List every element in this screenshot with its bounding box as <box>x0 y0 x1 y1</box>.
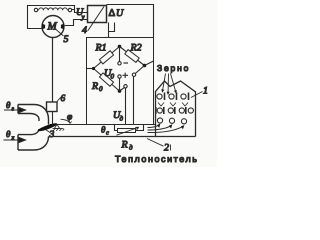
label U0 <box>104 68 115 81</box>
grain inflow arrows <box>161 74 177 96</box>
leader and label 3 <box>46 130 55 141</box>
wire left vertex to box edge <box>87 68 94 70</box>
wire sensor lead right <box>133 76 135 124</box>
valve flap 3 <box>37 122 58 133</box>
pivot symbol <box>53 124 65 130</box>
gearbox 6 <box>47 102 58 112</box>
svg-text:R: R <box>91 81 98 92</box>
amplifier box 4 <box>88 6 107 31</box>
leader and label 2 <box>147 139 171 154</box>
label Ud <box>113 110 124 123</box>
flow chevrons <box>158 103 188 107</box>
angle arc phi <box>61 119 72 123</box>
label R0 <box>91 81 103 93</box>
duct top wall <box>50 124 156 126</box>
svg-text:д: д <box>129 144 133 152</box>
grain hopper outline <box>156 81 196 137</box>
wire stub under amplifier <box>109 23 115 32</box>
svg-text:φ: φ <box>67 113 72 123</box>
terminal plus <box>118 75 121 78</box>
resistor R2 <box>125 50 139 63</box>
resistor Rd <box>118 129 136 133</box>
resistor R0 <box>99 73 113 86</box>
wire right vertex to upper terminal <box>135 66 144 74</box>
Rd loop right <box>136 125 144 131</box>
grain row 2 <box>156 107 194 114</box>
svg-text:Зерно: Зерно <box>157 63 190 73</box>
svg-text:с: с <box>106 130 109 137</box>
svg-text:д: д <box>120 115 124 123</box>
svg-text:0: 0 <box>111 73 115 81</box>
wire motor to amplifier <box>65 20 88 26</box>
arrow theta_g <box>4 107 26 112</box>
label theta_x <box>6 129 15 142</box>
svg-text:U: U <box>116 8 124 19</box>
terminal external arm lower <box>124 85 127 88</box>
mixer top pipe outer wall <box>18 105 49 125</box>
resistor R1 <box>99 51 113 64</box>
wire Uy: potentiometer to amplifier <box>72 10 88 13</box>
svg-text:5: 5 <box>64 34 69 45</box>
arrow theta_x <box>4 137 26 142</box>
label delta U <box>109 8 125 19</box>
plus sign <box>123 73 129 78</box>
svg-text:R: R <box>121 140 128 151</box>
grain row 1 <box>157 93 189 101</box>
mixer top pipe inner wall <box>18 114 39 122</box>
svg-text:M: M <box>47 21 58 33</box>
label Rd <box>121 140 134 152</box>
sensor wires into hopper <box>148 124 185 133</box>
svg-text:Теплоноситель: Теплоноситель <box>115 154 199 164</box>
wire bottom vertex to lower terminal <box>120 87 125 91</box>
svg-text:θ: θ <box>6 100 11 110</box>
svg-text:R1: R1 <box>95 43 107 54</box>
wire arm R2 <box>120 47 145 66</box>
wire amplifier to bridge box <box>108 23 110 38</box>
label theta_g <box>6 100 15 113</box>
wire right vertex to box edge <box>145 61 154 66</box>
shaft motor to gearbox <box>52 38 54 103</box>
potentiometer winding <box>34 8 71 12</box>
node: bridge top vertex <box>118 45 122 49</box>
wire top vertex to minus terminal <box>119 47 121 62</box>
mixer bottom pipe outer wall <box>18 135 49 150</box>
motor M (5) <box>42 16 64 38</box>
svg-text:2: 2 <box>164 143 169 154</box>
svg-text:1: 1 <box>203 86 208 97</box>
svg-text:6: 6 <box>61 94 66 104</box>
minus sign <box>124 62 129 64</box>
svg-text:Δ: Δ <box>109 8 116 19</box>
label Uy <box>76 7 86 21</box>
bridge enclosure box <box>87 38 154 125</box>
grain row 3 <box>157 118 186 124</box>
node: bridge bottom vertex <box>118 89 122 93</box>
arrow through Rd <box>117 127 139 135</box>
wire sensor lead left <box>125 88 127 125</box>
setpoint unit box (top-left) <box>28 6 75 29</box>
svg-text:0: 0 <box>99 85 103 93</box>
node: bridge right vertex <box>143 64 147 68</box>
wire arm R0 <box>94 69 120 92</box>
shaft gearbox to flap <box>52 112 54 125</box>
svg-text:3: 3 <box>49 130 55 140</box>
terminal minus <box>118 62 121 65</box>
svg-text:г: г <box>12 106 15 113</box>
svg-text:θ: θ <box>6 129 11 139</box>
mixer bottom pipe inner wall <box>18 129 39 135</box>
svg-text:4: 4 <box>82 25 87 36</box>
wire arm R1 <box>94 47 120 69</box>
node: bridge left vertex <box>92 67 95 70</box>
duct bottom wall <box>49 136 196 138</box>
label theta_c <box>101 125 109 137</box>
wire plus terminal to bottom vertex <box>119 78 121 91</box>
leader and label 6 <box>57 94 66 104</box>
svg-text:R2: R2 <box>130 43 142 54</box>
leader and label 1 <box>191 86 208 98</box>
Rd loop left <box>115 125 118 131</box>
terminal external arm upper <box>132 73 135 76</box>
leader and label 5 <box>56 30 69 46</box>
wire deltaU (top) <box>107 5 154 38</box>
